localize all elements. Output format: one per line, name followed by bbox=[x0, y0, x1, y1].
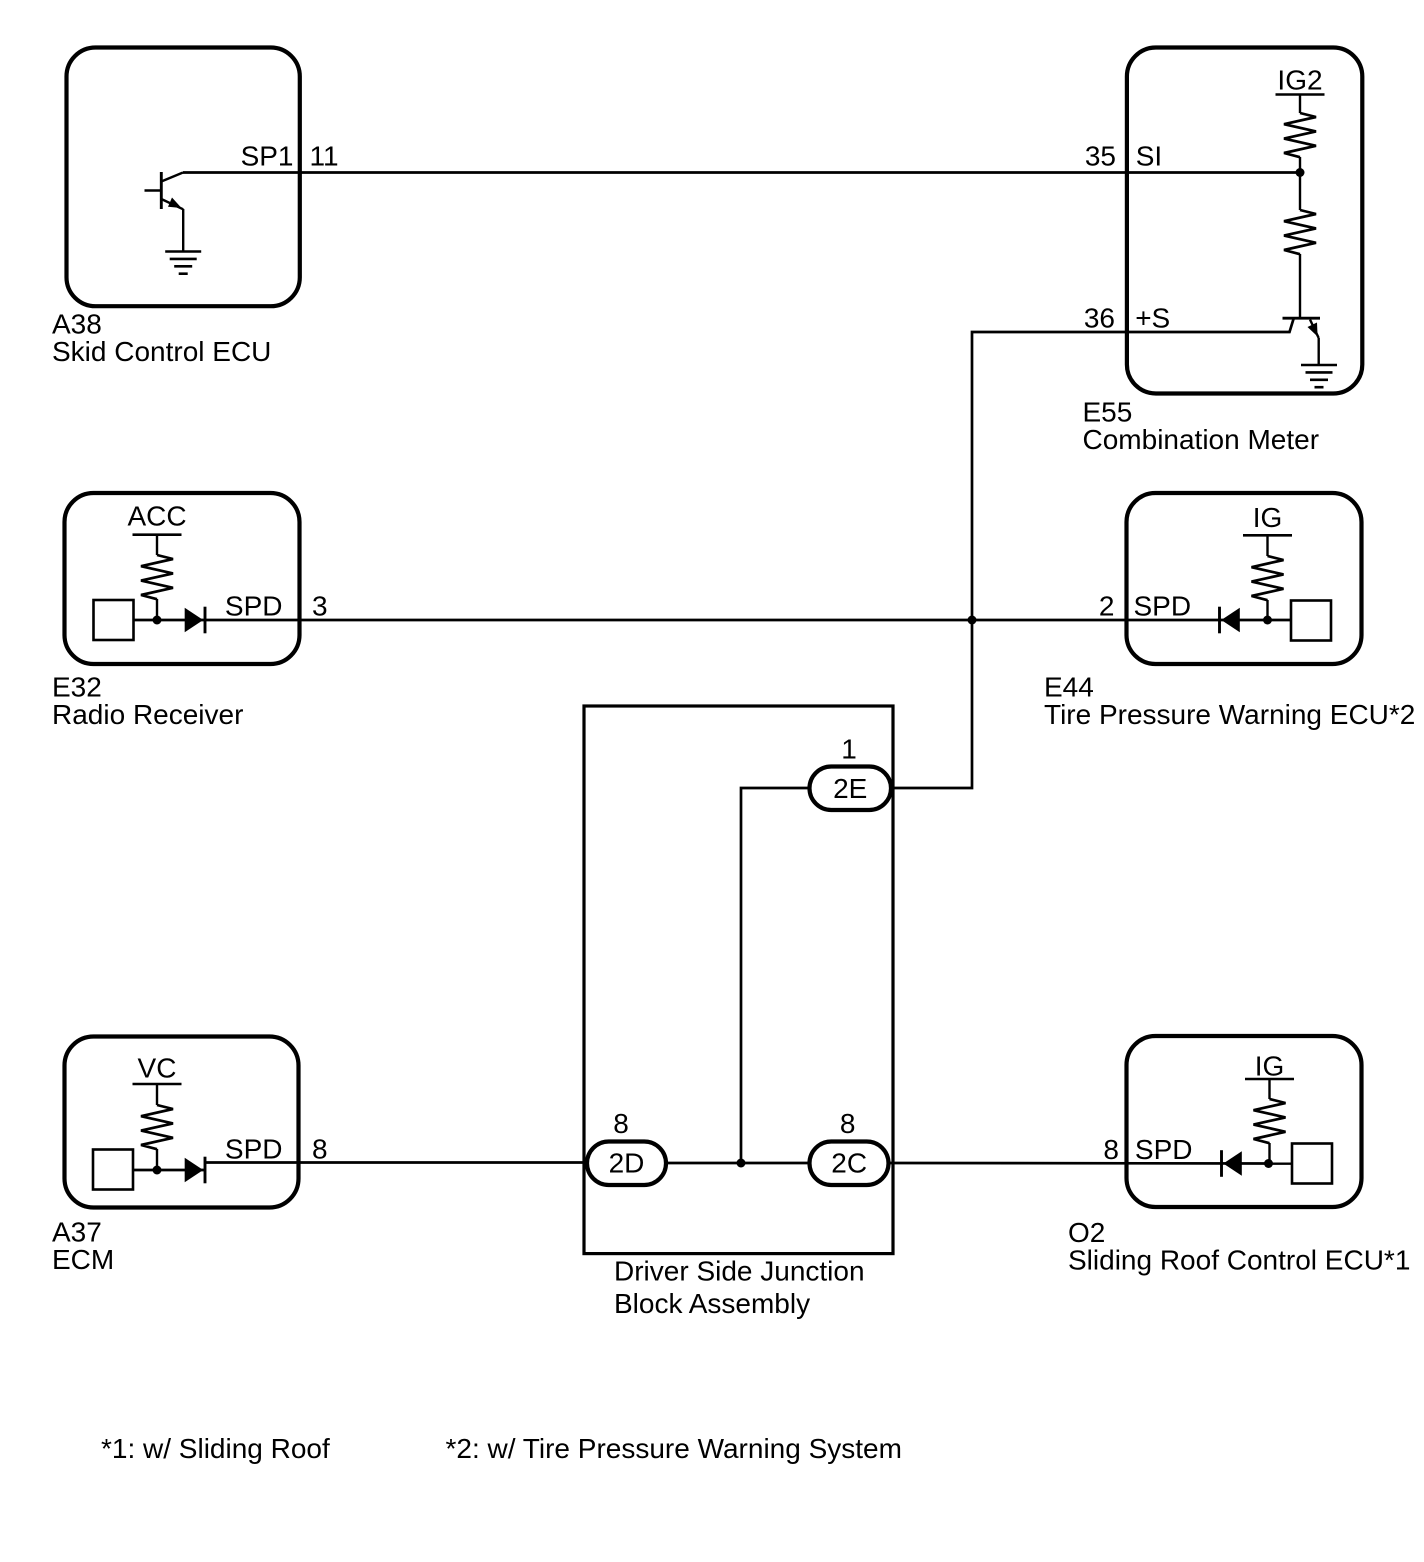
svg-text:2C: 2C bbox=[831, 1148, 867, 1179]
svg-text:8: 8 bbox=[613, 1108, 629, 1139]
svg-text:E44: E44 bbox=[1044, 672, 1094, 703]
svg-text:SI: SI bbox=[1136, 140, 1162, 171]
svg-text:E32: E32 bbox=[52, 672, 102, 703]
svg-text:1: 1 bbox=[841, 734, 857, 765]
svg-text:SP1: SP1 bbox=[241, 140, 294, 171]
svg-text:Tire Pressure Warning ECU*2: Tire Pressure Warning ECU*2 bbox=[1044, 699, 1415, 730]
svg-text:ACC: ACC bbox=[127, 500, 186, 531]
svg-text:E55: E55 bbox=[1083, 397, 1133, 428]
svg-text:+S: +S bbox=[1135, 302, 1170, 333]
svg-text:ECM: ECM bbox=[52, 1244, 114, 1275]
svg-text:Radio Receiver: Radio Receiver bbox=[52, 699, 243, 730]
svg-text:Skid Control ECU: Skid Control ECU bbox=[52, 336, 271, 367]
svg-text:Block Assembly: Block Assembly bbox=[614, 1288, 810, 1319]
svg-text:Driver Side Junction: Driver Side Junction bbox=[614, 1256, 865, 1287]
svg-text:2D: 2D bbox=[609, 1148, 645, 1179]
svg-text:*1: w/ Sliding Roof: *1: w/ Sliding Roof bbox=[101, 1433, 330, 1464]
svg-text:IG: IG bbox=[1253, 502, 1283, 533]
svg-text:Sliding Roof Control ECU*1: Sliding Roof Control ECU*1 bbox=[1068, 1245, 1410, 1276]
svg-text:36: 36 bbox=[1084, 302, 1115, 333]
svg-text:2: 2 bbox=[1099, 591, 1115, 622]
svg-text:VC: VC bbox=[138, 1052, 177, 1083]
svg-text:Combination Meter: Combination Meter bbox=[1083, 424, 1320, 455]
svg-text:8: 8 bbox=[312, 1133, 328, 1164]
svg-text:IG: IG bbox=[1255, 1050, 1285, 1081]
svg-text:SPD: SPD bbox=[225, 591, 283, 622]
svg-text:35: 35 bbox=[1085, 140, 1116, 171]
svg-text:A38: A38 bbox=[52, 309, 102, 340]
svg-text:11: 11 bbox=[310, 140, 339, 171]
svg-text:3: 3 bbox=[312, 591, 328, 622]
svg-text:SPD: SPD bbox=[1135, 1134, 1193, 1165]
svg-text:2E: 2E bbox=[833, 773, 867, 804]
svg-text:8: 8 bbox=[840, 1108, 856, 1139]
svg-text:*2: w/ Tire Pressure Warning S: *2: w/ Tire Pressure Warning System bbox=[446, 1433, 902, 1464]
svg-text:O2: O2 bbox=[1068, 1217, 1105, 1248]
svg-text:SPD: SPD bbox=[225, 1133, 283, 1164]
svg-text:A37: A37 bbox=[52, 1217, 102, 1248]
svg-text:IG2: IG2 bbox=[1277, 64, 1322, 95]
svg-text:SPD: SPD bbox=[1134, 591, 1192, 622]
svg-text:8: 8 bbox=[1103, 1134, 1119, 1165]
